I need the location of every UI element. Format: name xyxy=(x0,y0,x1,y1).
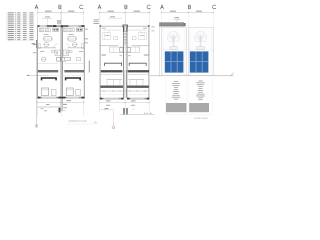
elevation canopy bar xyxy=(159,22,184,26)
plan2 terrace deck structures xyxy=(107,79,123,81)
leader arrow left xyxy=(27,74,49,76)
plan2 party wall stair rails xyxy=(123,26,125,71)
elevation wall panel left xyxy=(161,27,186,76)
plan2 stair treads xyxy=(124,31,127,33)
plan1 room labels upper xyxy=(44,33,49,36)
plan2 bottom dims xyxy=(106,100,111,103)
plan2 bath block xyxy=(110,47,140,53)
note text stack left xyxy=(174,80,179,83)
vertical dim text between plans xyxy=(85,28,88,31)
plan2 top wall thin xyxy=(100,25,149,27)
plan1 top wall xyxy=(37,25,84,27)
plan2 party wall lower thin xyxy=(123,70,125,98)
plan2 secondary dim xyxy=(108,17,122,19)
note gray bar right xyxy=(189,103,209,112)
plan2 room labels xyxy=(105,34,110,37)
plan1 party wall xyxy=(60,26,62,97)
plan2 bottom wall xyxy=(100,98,124,100)
vertical tick right of plan1 xyxy=(88,61,90,73)
grid lines plan 2 xyxy=(99,9,101,113)
plan1 door arcs xyxy=(54,44,58,48)
note gray bar left xyxy=(166,103,186,112)
plan1 internal wall xyxy=(38,47,56,49)
plan1 bottom dims xyxy=(67,99,72,102)
plan1 furniture row xyxy=(42,57,46,61)
plan2 corner dim texts xyxy=(102,27,106,30)
dim text left of plan1 xyxy=(33,43,36,46)
plan2 thin lines below band xyxy=(101,73,123,75)
plan1 round table right xyxy=(73,42,77,46)
elevation planter left xyxy=(170,47,177,49)
plan1 dining table left xyxy=(44,37,51,41)
bottom tick mark xyxy=(94,122,97,124)
plan2 level text stack xyxy=(94,19,100,22)
elevation top dim line xyxy=(162,12,214,14)
plan2 shelf lines upper xyxy=(103,29,121,31)
plan1 bottom wall xyxy=(37,97,84,99)
plan1 kitchen counter right xyxy=(63,28,74,32)
plan1 chimney xyxy=(57,20,60,24)
plan2 staple rail xyxy=(105,63,147,66)
plan2 party wall dark feet xyxy=(123,108,124,115)
elevation sill line xyxy=(162,49,187,51)
plan1 kitchen counter left xyxy=(39,28,50,32)
elevation left corner line xyxy=(159,26,161,76)
elevation wall panel right xyxy=(188,27,213,76)
elevation ground line xyxy=(150,75,234,77)
elevation canopy dim xyxy=(175,16,180,19)
plan2 stair hood top xyxy=(123,25,128,27)
plan1 toilets xyxy=(52,50,55,53)
plan2 side walls xyxy=(99,26,101,100)
section line grid A extension xyxy=(36,40,38,48)
plan1 bath block left xyxy=(55,50,61,56)
plan1 bath block right xyxy=(63,50,69,56)
elevation tree left xyxy=(167,31,179,41)
plan1 black parapet staples xyxy=(42,78,57,80)
plan1 closets at outer walls xyxy=(38,44,40,49)
plan1 terrace line xyxy=(38,74,84,76)
faint bottom leader line xyxy=(66,123,96,125)
plan1 top dimension line xyxy=(38,12,84,14)
grid lines plan 1 xyxy=(37,9,39,117)
plan2 dim text row xyxy=(102,54,107,57)
note text stack right xyxy=(198,80,203,83)
grid lines elevation xyxy=(161,9,163,77)
plan1 window top-left xyxy=(40,25,47,26)
plan1 round table left xyxy=(44,42,48,46)
plan1 side walls xyxy=(37,26,39,97)
plan1 faint floor line xyxy=(38,63,58,65)
plan2 bed left xyxy=(103,32,111,39)
plan2 bed right xyxy=(138,32,146,39)
note column borders xyxy=(164,78,166,115)
red tick at ground line end xyxy=(231,73,234,76)
area schedule table xyxy=(6,11,9,14)
plan1 window top-right xyxy=(69,25,79,26)
plan1 dining table right xyxy=(68,37,75,41)
red hook bottom of section line xyxy=(35,124,38,126)
plan2 heavy band 1 xyxy=(101,70,123,72)
grid letters xyxy=(35,5,38,9)
elevation window right xyxy=(190,51,209,72)
elevation tree right xyxy=(194,31,206,41)
plan1 party wall stub below xyxy=(60,98,62,110)
plan2 base line xyxy=(120,114,156,116)
elevation planter right xyxy=(197,47,204,49)
plan1 lower beds xyxy=(42,88,49,96)
plan2 door marks xyxy=(107,31,110,34)
plan1 secondary dim xyxy=(42,17,52,19)
plan1 room labels lower xyxy=(40,50,45,53)
ticks right of plan2 xyxy=(152,26,155,29)
elevation window left xyxy=(165,51,184,72)
svg-text:ROOF PLAN: ROOF PLAN xyxy=(195,117,208,120)
plan2 railing line with ticks xyxy=(100,90,149,92)
sheet background xyxy=(0,0,238,159)
table sum note xyxy=(32,42,36,45)
plan1 heavy band xyxy=(37,70,58,72)
plan2 internal walls xyxy=(100,45,118,47)
plan2 heavy band 2 xyxy=(101,86,124,88)
svg-text:GROUND FLOOR: GROUND FLOOR xyxy=(69,121,87,123)
plan2 small tables xyxy=(114,37,118,40)
plan2 top dimension line xyxy=(100,12,149,14)
plan2 drop line with red mark xyxy=(113,110,115,126)
